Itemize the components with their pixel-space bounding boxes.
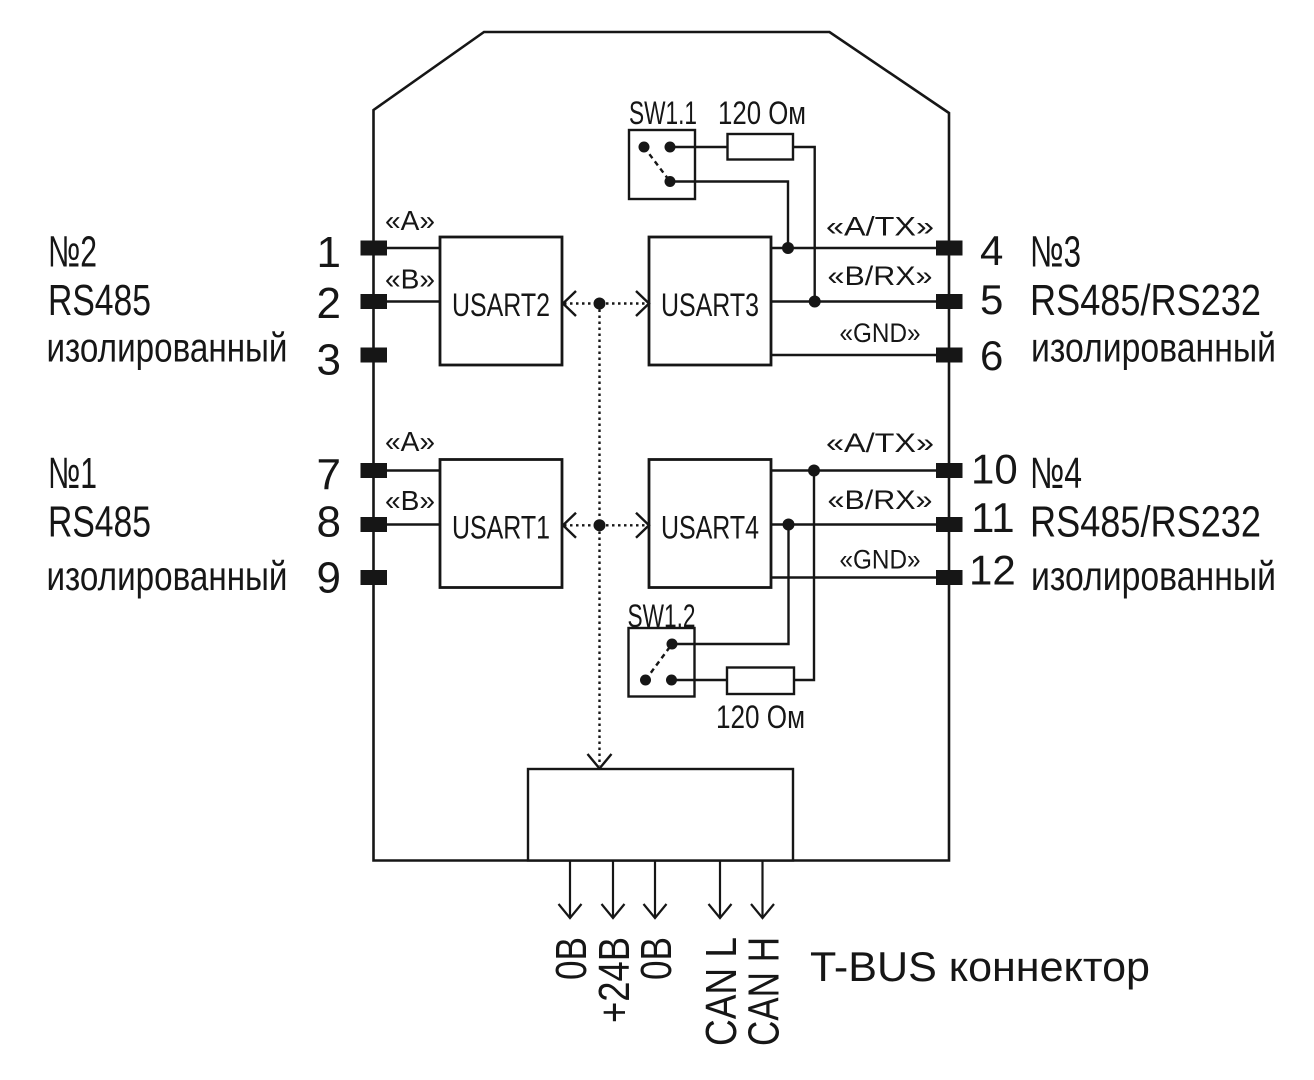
svg-text:CAN H: CAN H [740, 937, 789, 1046]
svg-text:SW1.1: SW1.1 [629, 95, 697, 131]
svg-text:120 Ом: 120 Ом [716, 699, 805, 735]
svg-text:USART2: USART2 [452, 287, 550, 323]
svg-text:«A»: «A» [385, 205, 435, 236]
dotted bus USART1-USART4 [563, 513, 649, 538]
svg-text:RS485/RS232: RS485/RS232 [1030, 498, 1261, 547]
svg-text:0В: 0В [547, 937, 596, 980]
pad pin 11 [936, 517, 963, 532]
svg-text:USART1: USART1 [452, 510, 550, 546]
svg-text:USART4: USART4 [661, 510, 759, 546]
wire USART4 GND to pin12 [771, 576, 936, 578]
svg-text:1: 1 [317, 228, 341, 277]
svg-text:RS485: RS485 [48, 498, 151, 547]
wire USART3 A/TX to pin4 [771, 247, 936, 249]
svg-text:изолированный: изолированный [47, 553, 288, 599]
svg-text:0В: 0В [632, 937, 681, 980]
block USART4 [649, 460, 771, 588]
svg-text:5: 5 [980, 276, 1003, 323]
svg-text:SW1.2: SW1.2 [628, 598, 696, 634]
svg-text:№1: №1 [48, 449, 97, 498]
dotted bus vertical to T-BUS [588, 304, 612, 769]
wire SW1.1 to resistor R1 [670, 146, 728, 148]
pad pin 10 [936, 463, 963, 478]
wire pin7 to USART1 [374, 469, 440, 471]
junction dotted bus bottom [594, 519, 606, 531]
svg-text:10: 10 [971, 446, 1018, 493]
wire USART3 GND to pin6 [771, 354, 936, 356]
pad pin 4 [936, 241, 963, 256]
svg-text:№3: №3 [1030, 228, 1081, 277]
T-BUS connector box [528, 769, 793, 861]
arrow CAN L [709, 861, 732, 918]
block USART2 [440, 237, 562, 365]
svg-text:«GND»: «GND» [840, 545, 921, 575]
svg-text:RS485/RS232: RS485/RS232 [1030, 276, 1261, 325]
arrow 0В (1) [559, 861, 582, 918]
block USART1 [440, 460, 562, 588]
svg-text:2: 2 [317, 279, 341, 328]
svg-text:T-BUS коннектор: T-BUS коннектор [810, 943, 1150, 990]
arrow CAN H [751, 861, 774, 918]
svg-text:№2: №2 [48, 228, 97, 277]
junction A/TX top [782, 242, 794, 254]
switch SW1.1 [629, 130, 695, 199]
dotted bus USART2-USART3 [563, 291, 649, 316]
resistor R1 120 Ом [728, 134, 794, 160]
svg-text:изолированный: изолированный [1031, 553, 1276, 599]
pad pin 12 [936, 570, 963, 585]
svg-text:USART3: USART3 [661, 287, 759, 323]
svg-text:изолированный: изолированный [1031, 325, 1276, 371]
wire SW1.2 to resistor R2 [672, 679, 728, 681]
wire USART4 B/RX to pin11 [771, 523, 936, 525]
svg-text:3: 3 [317, 336, 341, 385]
pad pin 1 [361, 241, 388, 256]
junction A/TX bottom [808, 465, 820, 477]
wire USART3 B/RX to pin5 [771, 300, 936, 302]
svg-text:«GND»: «GND» [840, 318, 921, 348]
wire SW1.2 to B/RX junction [672, 525, 789, 645]
svg-text:№4: №4 [1030, 449, 1082, 498]
wire pin8 to USART1 [374, 523, 440, 525]
svg-text:RS485: RS485 [48, 276, 151, 325]
junction B/RX top [809, 296, 821, 308]
svg-text:7: 7 [317, 451, 341, 500]
svg-text:«A/TX»: «A/TX» [826, 428, 934, 458]
pad pin 6 [936, 348, 963, 363]
svg-text:120 Ом: 120 Ом [718, 95, 806, 131]
junction B/RX bottom [783, 519, 795, 531]
resistor R2 120 Ом [727, 668, 794, 695]
pad pin 3 [361, 348, 388, 363]
pad pin 9 [361, 570, 388, 585]
svg-text:11: 11 [971, 494, 1015, 541]
svg-text:6: 6 [980, 332, 1003, 379]
pad pin 2 [361, 294, 388, 309]
arrow 0В (2) [644, 861, 667, 918]
wire SW1.1 common to A/TX junction [670, 182, 788, 249]
wire pin1 to USART2 [374, 247, 440, 249]
svg-text:«A/TX»: «A/TX» [826, 212, 934, 242]
wire USART4 A/TX to pin10 [771, 469, 936, 471]
block USART3 [649, 237, 771, 365]
pad pin 5 [936, 294, 963, 309]
pad pin 7 [361, 463, 388, 478]
arrow +24В [602, 861, 625, 918]
svg-text:«B/RX»: «B/RX» [828, 485, 933, 515]
svg-text:изолированный: изолированный [47, 325, 288, 371]
pad pin 8 [361, 517, 388, 532]
device outline [374, 32, 950, 861]
wire resistor R2 to A/TX junction [794, 471, 814, 681]
svg-text:«B»: «B» [385, 264, 435, 295]
svg-text:4: 4 [980, 227, 1003, 274]
svg-text:9: 9 [317, 554, 341, 603]
svg-text:8: 8 [317, 498, 341, 547]
svg-text:«B/RX»: «B/RX» [828, 261, 933, 291]
svg-text:«A»: «A» [385, 426, 435, 457]
svg-text:«B»: «B» [385, 485, 435, 516]
junction dotted bus top [594, 298, 606, 310]
switch SW1.2 [629, 628, 695, 697]
svg-text:12: 12 [969, 547, 1016, 594]
wire pin2 to USART2 [374, 300, 440, 302]
wire resistor R1 to B/RX junction [793, 147, 815, 302]
